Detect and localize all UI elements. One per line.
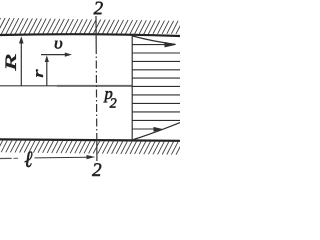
velocity arrow row 9 — [132, 111, 180, 113]
label p2 — [104, 91, 113, 102]
section line 2-2 (dash-dot vertical) — [95, 16, 97, 46]
velocity arrow row 4 — [132, 69, 180, 71]
radius arrow R — [20, 42, 22, 86]
label 2 (bottom) — [92, 163, 101, 176]
top wall hatching — [0, 18, 187, 34]
velocity arrow row 6 (axis) — [132, 85, 180, 87]
velocity arrow row 8 — [132, 102, 180, 104]
label l (script ell) — [25, 151, 33, 167]
velocity arrow row 10 — [132, 119, 180, 121]
bottom wall hatching — [0, 140, 188, 155]
velocity arrow row 11 — [132, 128, 155, 130]
velocity arrow row 1 — [132, 44, 167, 46]
velocity profile base line — [131, 36, 133, 140]
top wall line — [0, 34, 180, 36]
pipe axis centerline — [0, 85, 57, 87]
bottom wall line — [0, 139, 180, 140]
length dimension line l — [0, 157, 12, 159]
velocity arrow row 5 — [132, 77, 180, 79]
profile envelope curve (bottom) — [134, 123, 181, 140]
velocity arrow row 7 — [132, 94, 180, 96]
velocity arrow v — [41, 54, 66, 56]
label 2 (top) — [94, 2, 103, 15]
label r — [36, 70, 43, 77]
radius arrow r — [46, 61, 48, 86]
velocity arrow row 2 — [132, 52, 180, 54]
velocity arrow row 3 — [132, 60, 180, 62]
label v — [55, 41, 62, 49]
label R — [6, 55, 16, 71]
profile envelope curve (top) — [133, 36, 176, 44]
